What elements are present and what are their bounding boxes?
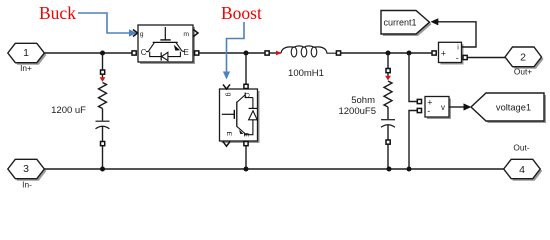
junction node B xyxy=(244,51,249,56)
junction node E xyxy=(100,167,105,172)
g input chevron (top) xyxy=(223,84,230,89)
svg-text:E: E xyxy=(183,48,188,57)
svg-text:5ohm: 5ohm xyxy=(351,95,375,106)
junction node A xyxy=(100,51,105,56)
wire: inductor to current measurement xyxy=(341,52,433,54)
svg-text:g: g xyxy=(140,31,144,38)
series RC branch C1 (1200 uF) xyxy=(96,53,110,146)
port 4 (Out-) xyxy=(504,143,543,181)
junction node C xyxy=(386,51,391,56)
anti-parallel diode (rotated) xyxy=(244,95,253,135)
svg-text:2: 2 xyxy=(520,52,526,64)
svg-text:3: 3 xyxy=(23,163,29,175)
inductor L1 (100mH1) xyxy=(265,46,341,79)
E port square xyxy=(195,51,199,55)
svg-text:current1: current1 xyxy=(384,18,417,28)
C port square (top) xyxy=(244,84,248,88)
m output chevron xyxy=(193,30,198,37)
svg-text:In-: In- xyxy=(22,180,32,190)
E port square (bottom) xyxy=(244,142,248,146)
series RC branch R1C2 (5ohm 1200uF5) xyxy=(381,52,395,145)
voltage measurement block (v) xyxy=(417,97,451,120)
IGBT symbol rotated xyxy=(222,113,234,115)
port 3 (In-) xyxy=(8,159,47,189)
m output chevron (bottom) xyxy=(223,142,230,147)
wire: current - to port 2 xyxy=(467,57,505,59)
g input chevron xyxy=(133,30,138,37)
IGBT symbol xyxy=(164,27,166,40)
C port square xyxy=(132,51,136,55)
port 2 (Out+) xyxy=(505,47,544,77)
svg-text:Out-: Out- xyxy=(513,143,529,153)
svg-text:voltage1: voltage1 xyxy=(496,102,531,112)
wire: port1 to Buck C xyxy=(44,52,132,54)
IGBT/Diode block U1 (Buck switch) xyxy=(132,25,199,64)
wire: v output to goto tag voltage1 xyxy=(449,106,464,108)
junction node F xyxy=(244,167,249,172)
svg-text:m: m xyxy=(183,31,189,38)
goto tag current1 xyxy=(381,11,432,37)
svg-text:v: v xyxy=(441,103,445,112)
svg-text:Buck: Buck xyxy=(39,3,76,23)
wire: branch to bottom rail xyxy=(387,145,389,170)
annotation Boost xyxy=(221,3,262,80)
current measurement block (i) xyxy=(432,42,467,64)
junction node D xyxy=(407,51,412,56)
IGBT/Diode block U2 (Boost switch, rotated) xyxy=(220,84,260,146)
svg-text:1200uF5: 1200uF5 xyxy=(338,106,376,117)
svg-text:Out+: Out+ xyxy=(514,67,532,77)
svg-text:g: g xyxy=(225,93,232,97)
svg-text:C: C xyxy=(141,48,147,57)
junction node G xyxy=(387,167,392,172)
wire: Buck E to inductor xyxy=(199,52,266,54)
svg-text:-: - xyxy=(456,53,459,63)
svg-text:-: - xyxy=(427,106,430,116)
svg-text:+: + xyxy=(441,49,446,59)
svg-text:1200 uF: 1200 uF xyxy=(51,105,86,116)
svg-text:In+: In+ xyxy=(20,63,32,73)
wire: node D to voltage measurement + xyxy=(409,53,417,102)
wire: branch to bottom rail xyxy=(102,146,104,169)
anti-parallel diode xyxy=(150,52,181,57)
svg-text:Boost: Boost xyxy=(221,3,262,23)
svg-text:1: 1 xyxy=(23,47,29,59)
svg-text:E: E xyxy=(225,132,232,137)
wire: voltage measurement - to bottom rail xyxy=(409,111,417,170)
bottom rail wire xyxy=(44,168,503,170)
wire: i output to goto tag current1 xyxy=(438,22,476,47)
svg-text:100mH1: 100mH1 xyxy=(288,68,324,79)
annotation Buck xyxy=(39,3,137,37)
svg-text:4: 4 xyxy=(519,164,525,176)
junction node H xyxy=(407,167,412,172)
wire: junction down to Boost C xyxy=(245,53,247,84)
goto tag voltage1 xyxy=(471,93,546,123)
port 1 (In+) xyxy=(8,43,47,73)
wire: Boost E to bottom rail xyxy=(245,146,247,169)
